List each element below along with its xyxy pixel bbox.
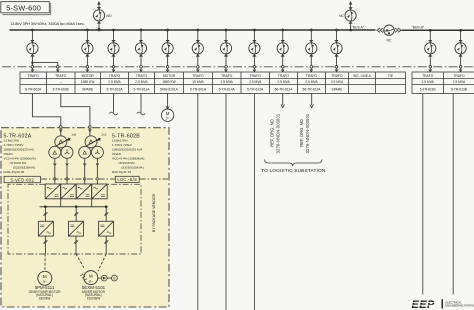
VFD converter enclosure dashed box xyxy=(8,184,141,254)
svg-text:(5325/5325kVA): (5325/5325kVA) xyxy=(122,166,144,170)
switchgear cubicle table bus B xyxy=(412,72,474,94)
svg-text:10650/5325/5325 kVA: 10650/5325/5325 kVA xyxy=(112,148,143,152)
svg-text:BY PACKAGE VENDOR: BY PACKAGE VENDOR xyxy=(152,193,156,232)
svg-text:5KW-6101A: 5KW-6101A xyxy=(160,88,179,92)
svg-text:TRAFO: TRAFO xyxy=(422,74,434,78)
svg-text:MOTOR: MOTOR xyxy=(82,74,95,78)
transformer T2 (3-winding) xyxy=(79,136,104,159)
feeder CB 5-TR-601A xyxy=(192,29,203,72)
feeder CB 5-TR-612A xyxy=(249,29,260,72)
feeder CB 5-TR-613B xyxy=(455,29,466,72)
rectifier block 2 xyxy=(61,184,76,199)
svg-text:EEP: EEP xyxy=(412,299,435,310)
label mixer motor xyxy=(82,285,106,300)
motor 5KW-6101A xyxy=(161,94,173,122)
wire feeder 56-TR-612A to logistic substation xyxy=(310,94,314,108)
wire DC bus to inverter 2 xyxy=(74,207,78,222)
svg-text:2.5 MVA: 2.5 MVA xyxy=(331,80,344,84)
svg-text:56-TR-611A: 56-TR-611A xyxy=(275,88,294,92)
VFD package boundary dash line xyxy=(41,178,168,180)
svg-text:5-TR-602B: 5-TR-602B xyxy=(53,88,70,92)
svg-text:3~: 3~ xyxy=(89,279,94,283)
svg-text:Dd0.15y11.15: Dd0.15y11.15 xyxy=(112,170,131,174)
svg-text:TRAFO: TRAFO xyxy=(55,74,67,78)
svg-text:MOTOR: MOTOR xyxy=(163,74,176,78)
transformer 5-TR-602B label block xyxy=(112,134,144,175)
wire feeder 5-TR-611B outgoing xyxy=(422,94,424,295)
svg-text:ENGINEERING PORTAL: ENGINEERING PORTAL xyxy=(446,304,474,308)
ref dwg label feeder 56-TR-612A xyxy=(299,113,310,153)
bus A xyxy=(10,29,376,31)
transformer 5-TR-602A label block xyxy=(4,134,36,175)
svg-text:NC: NC xyxy=(339,14,344,18)
feeder CB 5-TR-613A xyxy=(108,29,119,72)
drawout boundary dash-dot line xyxy=(2,66,474,68)
svg-text:15200kW: 15200kW xyxy=(87,296,100,300)
VFD package highlighted area xyxy=(1,128,169,307)
wires rectifiers to DC bus xyxy=(61,199,92,207)
rectifier block 4 xyxy=(92,184,108,199)
svg-text:VCC=9.4% (10650kVA): VCC=9.4% (10650kVA) xyxy=(112,157,144,161)
svg-text:TRAFO: TRAFO xyxy=(192,74,204,78)
svg-text:1n5: 1n5 xyxy=(71,132,76,136)
svg-text:TRAFO: TRAFO xyxy=(136,74,148,78)
svg-text:SPARE: SPARE xyxy=(82,88,94,92)
wire feeder 5-TR-601A outgoing xyxy=(197,94,199,310)
svg-text:2.5 MVA: 2.5 MVA xyxy=(277,80,290,84)
svg-text:VCC=9.4% (10650kVA): VCC=9.4% (10650kVA) xyxy=(4,157,36,161)
wire T2 delta winding to rectifier xyxy=(83,158,86,184)
svg-text:TRAFO: TRAFO xyxy=(221,74,233,78)
wire inverter 1 to gear pump motor xyxy=(43,236,47,271)
svg-text:TRAFO: TRAFO xyxy=(278,74,290,78)
DC bus xyxy=(40,206,108,208)
feeder CB SPARE motor xyxy=(82,29,93,72)
svg-text:REF. DRG. NO: REF. DRG. NO xyxy=(270,119,275,147)
svg-text:1.725/1.725kV: 1.725/1.725kV xyxy=(112,143,133,147)
incoming breaker NC (wire from top) xyxy=(339,1,356,31)
transformer T1 (3-winding) xyxy=(49,136,73,159)
svg-text:"BUS B": "BUS B" xyxy=(412,26,425,30)
table bus A row 2 ratings xyxy=(60,80,344,84)
svg-text:TO LOGISTIC SUBSTATION: TO LOGISTIC SUBSTATION xyxy=(261,168,326,174)
exciter E xyxy=(107,275,117,281)
svg-text:M: M xyxy=(89,273,93,278)
svg-text:=8.9%/8.9%: =8.9%/8.9% xyxy=(118,161,135,165)
node DC tap 2 xyxy=(75,205,78,208)
switchgear title box 5-SW-600 xyxy=(1,2,51,16)
inverter block 3 xyxy=(99,221,114,236)
svg-text:1800kW: 1800kW xyxy=(39,296,51,300)
svg-text:LOC.-S/S: LOC.-S/S xyxy=(117,177,137,182)
svg-text:TRAFO: TRAFO xyxy=(453,74,465,78)
motor 5EXM-5101 xyxy=(84,271,98,285)
wire T1 wye winding to rectifier xyxy=(66,158,69,184)
inverter block 2 xyxy=(69,221,84,236)
wire feeder 5-TR-613B outgoing xyxy=(452,94,454,295)
label box LOC.-S/S xyxy=(115,176,139,182)
package boundary crossing node trafo2 xyxy=(89,126,92,129)
node DC tap 1 xyxy=(44,205,47,208)
wire feeder 56-TR-611A to logistic substation xyxy=(281,94,285,108)
label gear pump motor xyxy=(29,285,61,300)
svg-text:5-SW-600: 5-SW-600 xyxy=(6,3,41,12)
rectifier block 1 xyxy=(45,184,61,199)
svg-text:3~: 3~ xyxy=(43,280,48,284)
svg-text:2.5 MVA: 2.5 MVA xyxy=(135,80,148,84)
svg-text:2.5 MVA: 2.5 MVA xyxy=(220,80,233,84)
svg-text:NO: NO xyxy=(107,14,112,18)
svg-text:2.5 MVA: 2.5 MVA xyxy=(305,80,318,84)
svg-text:TRAFO: TRAFO xyxy=(28,74,40,78)
wire T2 wye winding to rectifier xyxy=(96,158,99,184)
svg-text:5-TR-614A: 5-TR-614A xyxy=(219,88,236,92)
wire inverter 2 to mixer motor xyxy=(74,236,85,268)
svg-text:3~: 3~ xyxy=(166,117,170,121)
future stub 5-TR-611A xyxy=(137,94,145,115)
wire 5-TR-602A cubicle to VFD trafo 1 xyxy=(32,94,60,136)
svg-text:1.725/1.725kV: 1.725/1.725kV xyxy=(4,143,25,147)
wire 5-TR-602B cubicle to VFD trafo 2 xyxy=(61,94,90,136)
future stub 5-TR-613A xyxy=(109,94,117,115)
svg-text:M: M xyxy=(166,111,170,116)
svg-text:5-TR-612A: 5-TR-612A xyxy=(247,88,264,92)
svg-text:TIE: TIE xyxy=(388,74,394,78)
tie breaker NC between BUS A and BUS B xyxy=(377,25,401,43)
coupling symbol xyxy=(98,275,107,281)
wire DC bus to inverter 3 xyxy=(104,207,108,222)
wire feeder 5-TR-612A outgoing xyxy=(253,94,255,310)
svg-text:"BUS A": "BUS A" xyxy=(352,25,365,29)
svg-text:5-TR-613B: 5-TR-613B xyxy=(451,88,468,92)
svg-text:TRAFO: TRAFO xyxy=(250,74,262,78)
package boundary crossing node trafo1 xyxy=(60,126,63,129)
feeder CB 5-TR-614A xyxy=(220,29,231,72)
cable ticks at mixer motor xyxy=(80,274,87,281)
wire jog to 5-TR-602B cell xyxy=(31,61,59,72)
wire feeder 5-TR-614A outgoing xyxy=(225,94,227,310)
svg-text:3276-NNDN-003001: 3276-NNDN-003001 xyxy=(305,113,310,153)
svg-text:5-TR-602A: 5-TR-602A xyxy=(25,88,42,92)
wire T1 delta winding to rectifier xyxy=(53,158,56,184)
svg-text:NC: NC xyxy=(387,39,392,43)
table bus B cells xyxy=(420,74,468,91)
feeder CB motor 5KW-6101A xyxy=(162,29,173,72)
svg-text:M: M xyxy=(43,274,47,279)
table bus A row 1 headers xyxy=(28,74,394,78)
brace to logistic substation xyxy=(265,160,323,166)
svg-text:5-TR-601A: 5-TR-601A xyxy=(190,88,207,92)
incoming breaker NO (wire from top) xyxy=(93,1,112,31)
svg-text:56-TR-612A: 56-TR-612A xyxy=(303,88,322,92)
svg-text:3276-NNDN-003001: 3276-NNDN-003001 xyxy=(276,113,281,153)
svg-text:INC. LINE A: INC. LINE A xyxy=(353,74,372,78)
svg-text:TRAFO: TRAFO xyxy=(306,74,318,78)
feeder CB 56-TR-611A xyxy=(277,29,288,72)
svg-text:5-TR-611B: 5-TR-611B xyxy=(420,88,437,92)
feeder CB 5-TR-611B xyxy=(425,29,436,72)
rectifier block 3 xyxy=(76,184,92,199)
svg-text:13.8±2.5%/: 13.8±2.5%/ xyxy=(112,139,128,143)
motor 5PM-5111 xyxy=(38,271,52,285)
svg-text:REF. DRG. NO: REF. DRG. NO xyxy=(299,119,304,147)
svg-text:15 MVA: 15 MVA xyxy=(192,80,204,84)
table bus A row 3 tags xyxy=(25,88,343,92)
wire DC bus to inverter 1 xyxy=(43,207,47,222)
svg-text:ONAN: ONAN xyxy=(4,152,13,156)
svg-text:5-TR-613A: 5-TR-613A xyxy=(106,88,123,92)
svg-text:5-TR-611A: 5-TR-611A xyxy=(134,88,151,92)
wire inverter 3 to mixer motor xyxy=(98,236,108,271)
svg-text:ONAN: ONAN xyxy=(112,152,121,156)
svg-text:2.5 MVA: 2.5 MVA xyxy=(453,80,466,84)
svg-text:TRAFO: TRAFO xyxy=(331,74,343,78)
node DC tap 3 xyxy=(105,205,108,208)
feeder CB 5-TR-611A xyxy=(135,29,146,72)
ref dwg label feeder 56-TR-611A xyxy=(270,113,281,153)
svg-text:Dd11.45y10.45: Dd11.45y10.45 xyxy=(4,170,25,174)
feeder CB SPARE trafo xyxy=(331,29,342,72)
tap arrow T2 xyxy=(87,132,107,145)
svg-text:–: – xyxy=(60,80,62,84)
svg-text:2.5 MVA: 2.5 MVA xyxy=(249,80,262,84)
bus B xyxy=(402,29,474,31)
svg-text:1n5: 1n5 xyxy=(101,132,106,136)
tap arrow T1 xyxy=(57,132,77,145)
svg-text:1880 KW: 1880 KW xyxy=(81,80,95,84)
svg-text:=8.9%/8.9%: =8.9%/8.9% xyxy=(10,161,27,165)
svg-text:1880 KW: 1880 KW xyxy=(162,80,176,84)
feeder CB 56-TR-612A xyxy=(306,29,317,72)
svg-text:SPARE: SPARE xyxy=(332,88,344,92)
svg-text:13.8kV 3PH 3W 60Hz, 3150A Icc=: 13.8kV 3PH 3W 60Hz, 3150A Icc=40kA 1sec. xyxy=(10,21,84,26)
svg-text:5-VFD-602: 5-VFD-602 xyxy=(10,177,34,182)
svg-text:2.5 MVA: 2.5 MVA xyxy=(108,80,121,84)
svg-text:10650/5325/5325 kVA: 10650/5325/5325 kVA xyxy=(4,148,35,152)
svg-text:TRAFO: TRAFO xyxy=(109,74,121,78)
switchgear cubicle table bus A xyxy=(20,72,406,94)
svg-text:2.5 MVA: 2.5 MVA xyxy=(421,80,434,84)
svg-text:13.8±2.5%/: 13.8±2.5%/ xyxy=(4,139,20,143)
inverter block 1 xyxy=(38,221,53,236)
EEP logo xyxy=(411,299,474,310)
feeder CB 5-TR-602A/B xyxy=(27,29,38,72)
svg-text:(5325/5325kVA): (5325/5325kVA) xyxy=(13,166,35,170)
label box 5-VFD-602 xyxy=(4,176,40,182)
